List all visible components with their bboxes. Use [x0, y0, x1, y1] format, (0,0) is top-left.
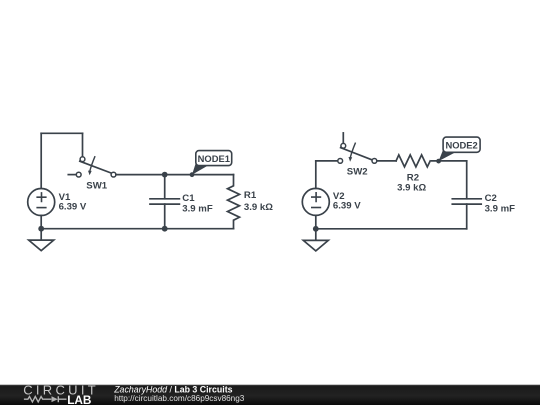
wire V1 top vertical	[40, 133, 42, 188]
wire SW1 to R1 top	[116, 174, 234, 176]
capacitor C2	[452, 161, 515, 229]
ground circuit 2	[303, 229, 328, 251]
wire bottom rail circuit 1	[41, 228, 233, 230]
svg-text:6.39 V: 6.39 V	[333, 201, 361, 212]
svg-text:R1: R1	[244, 190, 257, 201]
footer title text	[113, 384, 245, 403]
wire top horizontal to SW1	[41, 132, 82, 134]
svg-text:NODE2: NODE2	[445, 140, 477, 151]
ground circuit 1	[29, 229, 54, 251]
junction dot V2 bottom	[313, 226, 319, 232]
capacitor C1	[150, 175, 213, 229]
node NODE2 attach dot	[436, 159, 441, 164]
svg-text:ZacharyHodd / Lab 3 Circuits: ZacharyHodd / Lab 3 Circuits	[113, 384, 232, 394]
wire bottom rail circuit 2	[316, 228, 467, 230]
svg-text:SW2: SW2	[347, 167, 368, 178]
node NODE2 flag	[439, 137, 481, 161]
node NODE1 flag	[192, 151, 232, 175]
wire down to SW1 top terminal	[82, 133, 84, 157]
wire V2 top vertical	[315, 161, 317, 189]
junction dot C1 top	[162, 172, 168, 178]
svg-text:SW1: SW1	[86, 180, 107, 191]
wire R2 to right corner	[432, 160, 467, 162]
svg-text:3.9 mF: 3.9 mF	[485, 203, 516, 214]
CircuitLab logo	[23, 382, 99, 405]
wire to SW2 left terminal	[316, 160, 338, 162]
junction dot V1 bottom	[38, 226, 44, 232]
svg-text:6.39 V: 6.39 V	[59, 202, 87, 213]
wire SW2 to R2	[377, 160, 396, 162]
footer bar	[0, 385, 540, 405]
node NODE1 attach dot	[190, 172, 195, 177]
svg-text:LAB: LAB	[67, 393, 91, 405]
voltage source V2	[302, 188, 361, 215]
junction dot C1 bottom	[162, 226, 168, 232]
svg-text:C1: C1	[182, 193, 195, 204]
svg-text:3.9 kΩ: 3.9 kΩ	[244, 202, 273, 213]
svg-text:3.9 mF: 3.9 mF	[182, 204, 213, 215]
voltage source V1	[28, 189, 87, 229]
resistor R1	[228, 175, 274, 229]
svg-text:NODE1: NODE1	[198, 153, 230, 164]
switch SW2	[338, 133, 377, 178]
svg-text:3.9 kΩ: 3.9 kΩ	[397, 183, 426, 194]
switch SW1	[68, 157, 116, 192]
wire V2 bottom lead	[315, 215, 317, 228]
resistor R2	[396, 155, 430, 194]
svg-text:http://circuitlab.com/c86p9csv: http://circuitlab.com/c86p9csv86ng3	[114, 394, 245, 403]
